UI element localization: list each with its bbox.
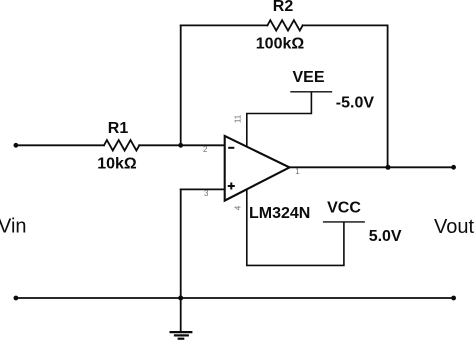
wire pin 4 to VCC (247, 190, 344, 266)
op-amp plus symbol (228, 183, 235, 190)
node junction dot at R1/feedback (178, 143, 183, 148)
svg-text:3: 3 (204, 189, 209, 198)
svg-text:R2: R2 (273, 0, 294, 15)
svg-text:VEE: VEE (292, 69, 324, 86)
wire input left segment (16, 144, 104, 146)
node input terminal dot (14, 143, 19, 148)
svg-text:LM324N: LM324N (249, 205, 310, 222)
wire bottom rail (16, 297, 454, 299)
ground (170, 332, 193, 339)
svg-text:1: 1 (295, 167, 300, 176)
node bottom-left terminal dot (14, 296, 19, 301)
resistor R1 (104, 140, 139, 150)
wire feedback left vertical (180, 25, 182, 145)
wire ground stem (180, 298, 182, 331)
node junction dot bottom rail (178, 296, 183, 301)
wire non-inverting vertical to bottom rail (180, 189, 182, 298)
svg-text:11: 11 (234, 114, 243, 123)
svg-text:R1: R1 (108, 120, 129, 137)
node junction dot output/feedback (386, 165, 391, 170)
svg-text:4: 4 (234, 205, 243, 210)
svg-text:2: 2 (203, 145, 208, 154)
wire pin 11 to VEE (247, 92, 312, 147)
wire feedback right vertical (387, 25, 389, 167)
node bottom-right terminal dot (451, 296, 456, 301)
svg-text:10kΩ: 10kΩ (97, 155, 137, 172)
op-amp minus symbol (228, 147, 234, 149)
wire non-inverting input (181, 188, 225, 190)
svg-text:VCC: VCC (327, 199, 361, 216)
svg-text:-5.0V: -5.0V (336, 95, 375, 112)
svg-text:100kΩ: 100kΩ (256, 35, 305, 52)
op-amp U1 triangle (225, 136, 290, 201)
VCC power bar (323, 221, 365, 223)
wire feedback top left segment (181, 24, 268, 26)
svg-text:Vout: Vout (434, 216, 474, 238)
wire R1 to op-amp inverting input (139, 144, 225, 146)
svg-text:5.0V: 5.0V (369, 228, 402, 245)
wire feedback top right segment (303, 24, 388, 26)
resistor R2 (267, 20, 302, 30)
svg-text:Vin: Vin (0, 215, 27, 237)
node output terminal dot (451, 165, 456, 170)
VEE power bar (290, 91, 332, 93)
wire output (290, 166, 454, 168)
